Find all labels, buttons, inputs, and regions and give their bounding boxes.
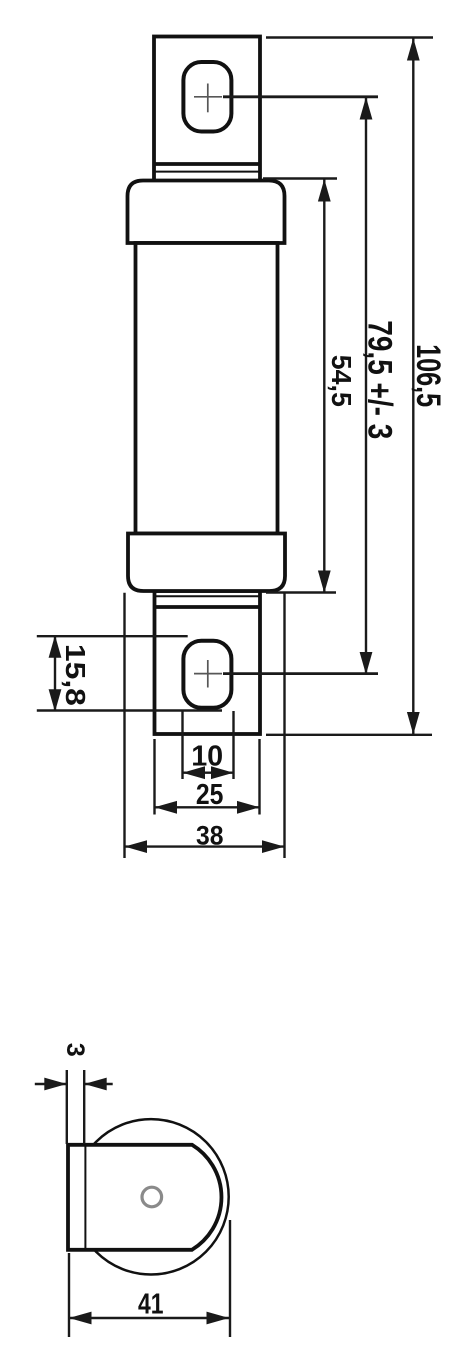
svg-text:54,5: 54,5 [326,355,357,407]
svg-text:25: 25 [196,779,224,811]
svg-text:79,5 +/- 3: 79,5 +/- 3 [361,320,399,439]
svg-text:15,8: 15,8 [60,644,91,706]
svg-text:10: 10 [191,741,223,773]
svg-text:38: 38 [196,821,224,851]
svg-text:106,5: 106,5 [409,344,447,407]
svg-text:3: 3 [61,1043,89,1057]
svg-text:41: 41 [138,1289,164,1321]
